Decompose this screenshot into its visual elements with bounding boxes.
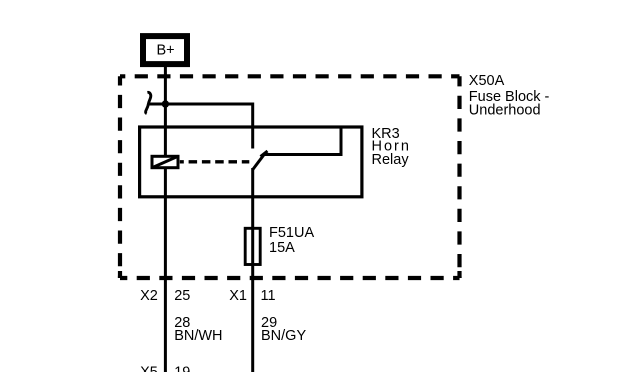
junction node [162,100,169,107]
fuse F51UA [245,228,260,264]
fuse block X50A dashed border right [457,76,461,278]
relay label KR3 [372,126,400,142]
fuse block X50A dashed border bottom [120,276,460,280]
svg-text:15A: 15A [269,240,295,256]
pin label 19 [174,365,190,372]
pin label 25 [174,288,190,304]
relay label Horn [372,138,411,154]
svg-text:X50A: X50A [469,73,505,89]
relay label Relay [372,152,410,168]
svg-text:X2: X2 [140,288,158,304]
svg-text:19: 19 [174,365,190,372]
relay switch blade [253,151,268,170]
wire label BN/GY [261,328,306,344]
connector label X5 [140,365,158,372]
fuse block label X50A [469,73,505,89]
wire B+ feed down through coil to bottom (left vertical wire, upper part) [164,64,167,156]
fuse block X50A dashed border corner bottom-left [118,271,122,278]
svg-text:X1: X1 [229,288,247,304]
pin label 11 [261,288,276,304]
fuse block X50A dashed border top [120,74,460,78]
connector label X2 [140,288,158,304]
fuse block label Underhood [469,103,541,119]
svg-text:F51UA: F51UA [269,225,314,241]
wire switch output to relay box top edge [265,127,342,155]
fuse block label Fuse Block - [469,89,550,105]
svg-text:11: 11 [261,288,276,304]
svg-text:X5: X5 [140,365,158,372]
fuse block X50A dashed border left [118,76,122,278]
wire switch pivot down to bottom edge [251,168,254,372]
svg-text:B+: B+ [157,43,175,59]
svg-text:BN/GY: BN/GY [261,328,306,344]
svg-text:Underhood: Underhood [469,103,541,119]
circuit continuation squiggle [146,92,162,113]
wire junction to switch fixed contact [165,104,252,149]
fuse label F51UA [269,225,314,241]
dashed mechanical link coil to switch [180,160,250,163]
wire label 29 [261,315,277,331]
connector label X1 [229,288,247,304]
svg-text:BN/WH: BN/WH [174,328,222,344]
svg-text:Relay: Relay [372,152,410,168]
fuse label 15A [269,240,295,256]
wire label BN/WH [174,328,222,344]
battery feed B+ [143,36,187,64]
wire left vertical below coil to bottom edge [164,169,167,372]
fuse block X50A dashed border corner bottom-right [457,271,461,278]
relay coil [152,156,178,167]
relay KR3 box [140,127,362,197]
wire label 28 [174,315,190,331]
svg-text:25: 25 [174,288,190,304]
